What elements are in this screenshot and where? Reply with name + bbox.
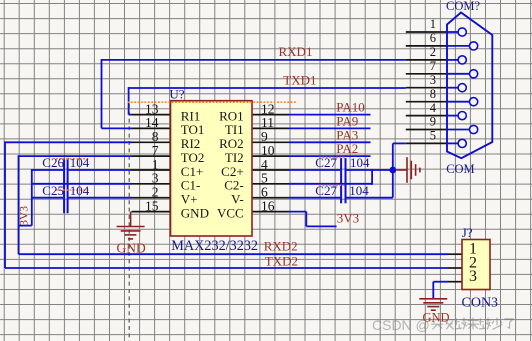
svg-text:3V3: 3V3 xyxy=(337,211,359,226)
svg-text:TI2: TI2 xyxy=(225,150,244,165)
svg-text:8: 8 xyxy=(430,87,436,101)
svg-text:3: 3 xyxy=(152,171,159,186)
svg-text:J?: J? xyxy=(462,225,473,240)
svg-text:14: 14 xyxy=(145,115,159,130)
svg-text:5: 5 xyxy=(261,171,268,186)
svg-text:3V3: 3V3 xyxy=(19,206,31,226)
svg-text:4: 4 xyxy=(430,101,437,115)
svg-text:C1+: C1+ xyxy=(181,164,204,179)
svg-text:RXD2: RXD2 xyxy=(264,239,298,254)
svg-text:7: 7 xyxy=(430,59,436,73)
svg-text:MAX232/3232: MAX232/3232 xyxy=(171,238,258,254)
svg-text:C2-: C2- xyxy=(224,178,244,193)
svg-text:7: 7 xyxy=(152,143,159,158)
svg-text:104: 104 xyxy=(349,183,369,198)
svg-text:16: 16 xyxy=(261,198,275,213)
svg-text:4: 4 xyxy=(261,157,268,172)
svg-text:RXD1: RXD1 xyxy=(279,44,313,59)
svg-text:5: 5 xyxy=(430,129,436,143)
svg-text:V+: V+ xyxy=(181,192,198,207)
svg-text:C25: C25 xyxy=(42,183,64,198)
svg-text:VCC: VCC xyxy=(217,205,244,220)
svg-text:RO1: RO1 xyxy=(219,108,244,123)
svg-text:3: 3 xyxy=(430,73,436,87)
svg-text:6: 6 xyxy=(430,31,436,45)
svg-text:8: 8 xyxy=(152,129,159,144)
svg-text:GND: GND xyxy=(181,205,209,220)
svg-text:V-: V- xyxy=(231,192,244,207)
svg-text:C27: C27 xyxy=(315,155,337,170)
svg-text:9: 9 xyxy=(261,129,268,144)
svg-text:11: 11 xyxy=(261,115,274,130)
svg-text:2: 2 xyxy=(430,45,436,59)
svg-text:TO1: TO1 xyxy=(181,122,205,137)
svg-text:C2+: C2+ xyxy=(221,164,244,179)
svg-text:12: 12 xyxy=(261,101,275,116)
svg-text:TO2: TO2 xyxy=(181,150,205,165)
svg-text:104: 104 xyxy=(70,155,90,170)
svg-text:GND: GND xyxy=(117,241,146,256)
svg-text:104: 104 xyxy=(350,155,370,170)
svg-text:PA3: PA3 xyxy=(336,127,358,142)
svg-text:RI2: RI2 xyxy=(181,136,201,151)
svg-text:1: 1 xyxy=(430,17,436,31)
svg-text:PA10: PA10 xyxy=(336,100,364,115)
svg-text:CSDN @: CSDN @ xyxy=(372,317,430,333)
svg-text:15: 15 xyxy=(145,198,159,213)
svg-text:C1-: C1- xyxy=(181,178,201,193)
svg-text:C27: C27 xyxy=(315,183,337,198)
svg-text:104: 104 xyxy=(70,183,90,198)
svg-text:U?: U? xyxy=(169,86,184,101)
svg-text:9: 9 xyxy=(430,115,436,129)
svg-text:PA9: PA9 xyxy=(336,113,358,128)
svg-text:TXD2: TXD2 xyxy=(265,254,298,269)
svg-text:6: 6 xyxy=(261,185,268,200)
svg-text:RI1: RI1 xyxy=(181,108,201,123)
svg-text:COM?: COM? xyxy=(446,0,480,13)
svg-text:C26: C26 xyxy=(42,155,64,170)
svg-text:PA2: PA2 xyxy=(336,141,358,156)
svg-text:TXD1: TXD1 xyxy=(283,72,316,87)
svg-text:2: 2 xyxy=(152,185,159,200)
svg-text:CON3: CON3 xyxy=(462,295,499,310)
svg-text:COM: COM xyxy=(446,162,474,176)
svg-text:TI1: TI1 xyxy=(225,122,244,137)
svg-text:13: 13 xyxy=(145,101,159,116)
svg-text:1: 1 xyxy=(152,157,159,172)
svg-text:RO2: RO2 xyxy=(219,136,244,151)
svg-text:10: 10 xyxy=(261,143,275,158)
svg-text:3: 3 xyxy=(469,268,477,285)
